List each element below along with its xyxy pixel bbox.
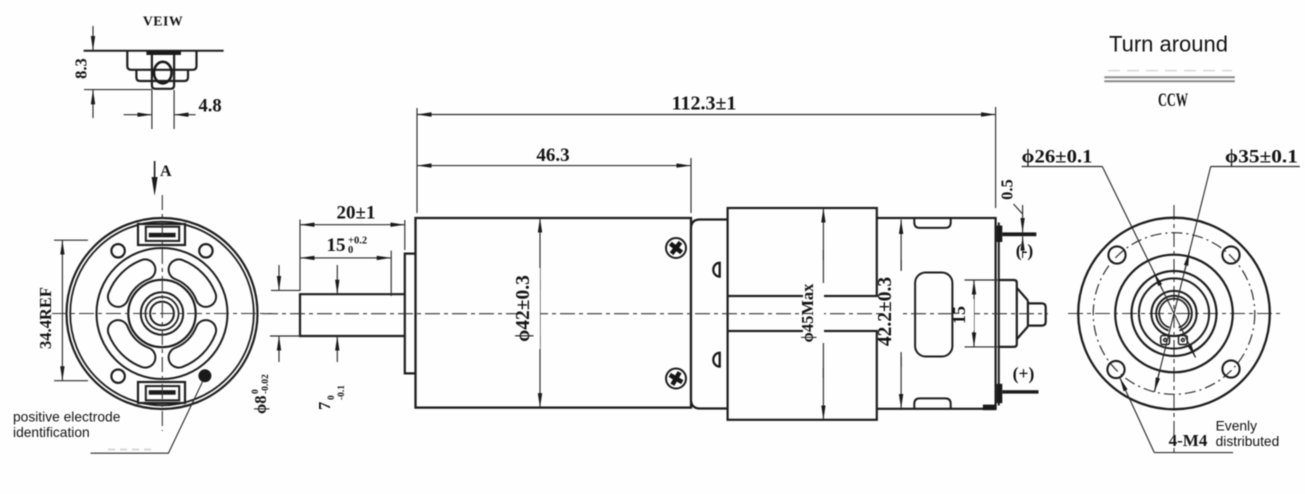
dim φ8 extensions [271,289,300,291]
faint artifact dashes [108,449,155,451]
circlip ear left [1161,336,1170,345]
vertical centerline [1173,205,1175,453]
svg-text:8.3: 8.3 [72,58,91,79]
svg-text:ϕ35±0.1: ϕ35±0.1 [1225,148,1298,168]
can vent middle [915,273,952,357]
boss taper [1017,288,1028,301]
circlip outer arc [1156,296,1192,331]
svg-text:4.8: 4.8 [198,97,221,117]
terminal tongue [152,55,174,89]
horizontal centerline [1068,313,1283,315]
double rule bottom [1104,80,1235,82]
svg-text:34.4REF: 34.4REF [36,287,55,349]
pilot circle [1115,255,1233,373]
dim 8.3 extension line [84,89,152,91]
mount hole top-right [1222,246,1239,263]
motor can [728,218,996,409]
leader φ35 [1154,167,1210,392]
mount hole bottom-left [1107,361,1124,378]
svg-text:15: 15 [327,235,346,256]
crimp tab bottom [713,353,719,367]
output shaft [300,294,405,336]
dim text 42.2±0.3 [881,271,902,352]
section arrow A [154,161,156,180]
left view horizontal centerline [52,313,272,315]
left view vertical centerline [161,195,163,431]
svg-text:Evenly: Evenly [1216,419,1258,434]
terminal base top [997,226,1003,243]
svg-text:112.3±1: 112.3±1 [672,93,737,115]
rivet hole upper-left [111,244,124,257]
terminal tier 2 outline [136,70,188,81]
dim 34.4REF extension ticks [54,239,88,241]
bearing ring circles [141,292,183,334]
double rule top [1104,76,1235,78]
dim 15 extension [390,251,392,296]
dim text φ45Max [803,283,824,343]
svg-text:ϕ26±0.1: ϕ26±0.1 [1022,148,1093,168]
vent slot NW [118,270,145,297]
vent plate circle [97,248,228,379]
dim 15 brush extensions [965,279,1000,281]
dim 15 arrows [300,257,346,259]
svg-text:0: 0 [251,389,261,394]
mount hole top-left [1108,246,1125,263]
boss circle [1132,271,1217,356]
svg-text:Turn around: Turn around [1109,32,1228,57]
bearing circle [1151,291,1196,336]
terminal pin top [1002,232,1036,236]
svg-text:20±1: 20±1 [337,203,376,224]
end cap face [998,223,1000,406]
magnet bulge bottom [728,331,877,420]
motor inner rim circle [70,222,254,406]
bearing housing boss [999,280,1017,347]
svg-text:7: 7 [315,402,334,410]
dim 8.3 arrows [92,26,94,50]
dim text 7 0/-0.1 [315,385,347,410]
flange outer circle [1078,218,1270,410]
magnet bulge top [728,208,877,296]
main centerline [263,313,1048,315]
vent slot SW [118,330,145,357]
svg-text:ϕ42±0.3: ϕ42±0.3 [513,275,534,342]
leader φ26 [1102,167,1195,358]
terminal base bottom [997,384,1003,403]
motor outer circle [67,218,258,409]
can vent bottom notch [914,398,950,408]
svg-text:(-): (-) [1016,241,1034,261]
svg-text:46.3: 46.3 [536,145,569,166]
dim φ8 arrows [278,265,280,290]
crimp tab top [713,263,719,277]
dim 4.8 extension lines [151,90,153,129]
note leader [91,382,203,453]
positive electrode dot [198,369,211,382]
svg-text:positive electrode: positive electrode [13,410,121,425]
svg-text:distributed: distributed [1216,434,1280,449]
dim 42.2±0.3 line [900,220,902,271]
rivet hole lower-left [111,370,124,383]
circlip ear right [1179,336,1188,345]
leader 4-M4 [1128,396,1154,452]
svg-text:-0.02: -0.02 [261,374,271,394]
rear shaft stub [1028,303,1046,325]
svg-text:0.5: 0.5 [998,179,1017,200]
svg-text:CCW: CCW [1158,90,1188,111]
dim text φ42±0.3 [518,268,540,349]
svg-text:0: 0 [327,395,337,400]
dim 46.3 extensions [416,108,418,213]
screw bottom [666,369,686,389]
svg-text:VEIW: VEIW [143,14,183,29]
boss circle 2 [1139,278,1209,348]
dim 112.3±1 arrows [417,114,704,116]
can vent top notch [914,218,950,228]
terminal housing bottom [138,382,185,403]
vent slot NE [179,270,206,297]
dim text φ8 0/-0.02 [251,374,271,414]
cap surface line [84,50,224,52]
svg-text:ϕ45Max: ϕ45Max [798,283,817,343]
terminal pin bottom [1002,390,1038,393]
dim 46.3 arrows [417,165,553,167]
dim 0.5 leader [1014,204,1023,214]
bearing boss circle [128,280,195,347]
dim 20±1 extension [299,220,301,292]
svg-text:42.2±0.3: 42.2±0.3 [875,277,896,346]
dim 4.8 arrows [124,114,152,116]
dim 112.3±1 extension [995,107,997,208]
terminal tier 1 outline [127,51,196,70]
svg-text:(+): (+) [1013,364,1035,384]
terminal housing top [138,224,185,245]
dim 7 arrows [336,265,338,294]
vent slot SE [179,330,206,357]
gearbox body [416,218,692,408]
oval hole [154,62,172,84]
dim 15 brush arrows [973,280,975,313]
terminal section filled bar [146,51,181,55]
circlip inner arc [1159,299,1189,328]
rivet hole upper-right [199,244,212,257]
dim 20±1 arrows [300,224,352,226]
svg-text:identification: identification [13,425,90,440]
faint dashed line [1108,70,1232,72]
bearing boss [405,254,416,374]
svg-text:0: 0 [348,245,353,256]
dim φ45Max line [822,208,824,260]
svg-text:ϕ8: ϕ8 [251,395,270,414]
dim φ42±0.3 line [539,218,541,290]
mount hole bottom-right [1222,360,1239,377]
dim 34.4REF arrows [61,240,63,310]
motor end bell [691,220,728,409]
bolt circle dashed [1093,233,1255,395]
svg-text:A: A [160,163,172,180]
svg-text:-0.1: -0.1 [337,385,347,400]
weld mark [983,405,996,411]
screw top [666,238,686,258]
svg-text:4-M4: 4-M4 [1169,431,1208,450]
dim text 15 brush [956,299,974,331]
svg-text:15: 15 [949,306,969,324]
